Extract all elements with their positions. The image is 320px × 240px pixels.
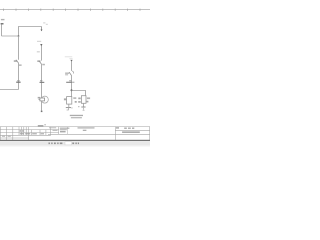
device H1 (indicator on branch 2): circle with box bbox=[41, 96, 48, 103]
wire (branch 2 vertical upper) bbox=[41, 46, 43, 61]
source arrow into wire bbox=[1, 23, 4, 24]
revision area small texts bbox=[20, 130, 22, 132]
arrow target dot branch 2 bbox=[40, 44, 42, 47]
wire (branch 1 vertical to contact) bbox=[18, 36, 20, 60]
title block horizontal rules bbox=[0, 127, 150, 138]
terminal labels on branch 3 bbox=[69, 80, 71, 81]
wire (branch 2 vertical lower) bbox=[41, 101, 43, 111]
bar terminal below coil Y1 bbox=[66, 107, 71, 109]
wire (horizontal feed at y=35.5) bbox=[2, 35, 19, 37]
wire stub below coil Y1 bbox=[68, 104, 70, 107]
wire (branch 2 vertical middle) bbox=[41, 64, 43, 98]
status bar text bbox=[49, 143, 80, 145]
terminal X1:2 labels on branch 2 bbox=[40, 80, 42, 81]
wire (branch 1 vertical upper) bbox=[19, 27, 42, 37]
junction node at feed bbox=[18, 35, 20, 37]
function description text (middle) bbox=[78, 127, 95, 128]
status bar field bbox=[65, 142, 72, 145]
wire stub below coil Y2 bbox=[82, 103, 84, 107]
bar terminal below coil Y2 bbox=[81, 106, 85, 108]
coil Y2 (branch 4 rectangle) bbox=[81, 96, 86, 104]
wire (branch 3 vertical upper) bbox=[71, 61, 73, 71]
wire (branch to coil K2 at y=90) bbox=[72, 91, 86, 96]
right box page digits bbox=[116, 127, 119, 128]
status bar bbox=[0, 141, 150, 146]
title block vertical rules bbox=[0, 127, 149, 140]
function text below coils bbox=[70, 115, 83, 116]
terminal X1 on branch 1 bbox=[17, 80, 19, 81]
faint wire label near arrow bbox=[43, 22, 45, 23]
ruler tick marks bbox=[4, 9, 141, 11]
right box document text bbox=[122, 131, 140, 133]
wire (branch 1 exit left at y=89.5) bbox=[0, 89, 19, 91]
arrow down at end of top wire bbox=[41, 27, 43, 30]
wire (branch 3 vertical lower) bbox=[71, 75, 73, 96]
contact F1 (NO contact on branch 1) bbox=[16, 60, 19, 63]
top ruler line of drawing frame bbox=[0, 9, 150, 11]
contact S1 (NO contact on branch 2) bbox=[39, 61, 42, 64]
sheet bottom border bbox=[0, 140, 150, 141]
company cell text bbox=[60, 128, 70, 129]
junction node on branch 3 bbox=[71, 89, 73, 91]
coil Y1 (branch 3 rectangle) bbox=[67, 97, 72, 105]
contact S2 (pushbutton on branch 3) bbox=[72, 71, 73, 74]
Gew. note above title block bbox=[38, 125, 44, 126]
title block cell texts: upper-left small labels bbox=[49, 127, 56, 128]
wire (incoming drop at far left) bbox=[1, 24, 3, 36]
wire (branch 1 vertical lower) bbox=[18, 63, 20, 90]
node L1 label top-left bbox=[1, 19, 5, 20]
wire end marker branch 2 bbox=[41, 111, 43, 113]
device label S1 bbox=[37, 51, 40, 52]
destination arrow label above branch 2 bbox=[37, 41, 41, 42]
source arrow branch 3 bbox=[70, 60, 72, 62]
faint label above branch 3 bbox=[65, 56, 72, 57]
